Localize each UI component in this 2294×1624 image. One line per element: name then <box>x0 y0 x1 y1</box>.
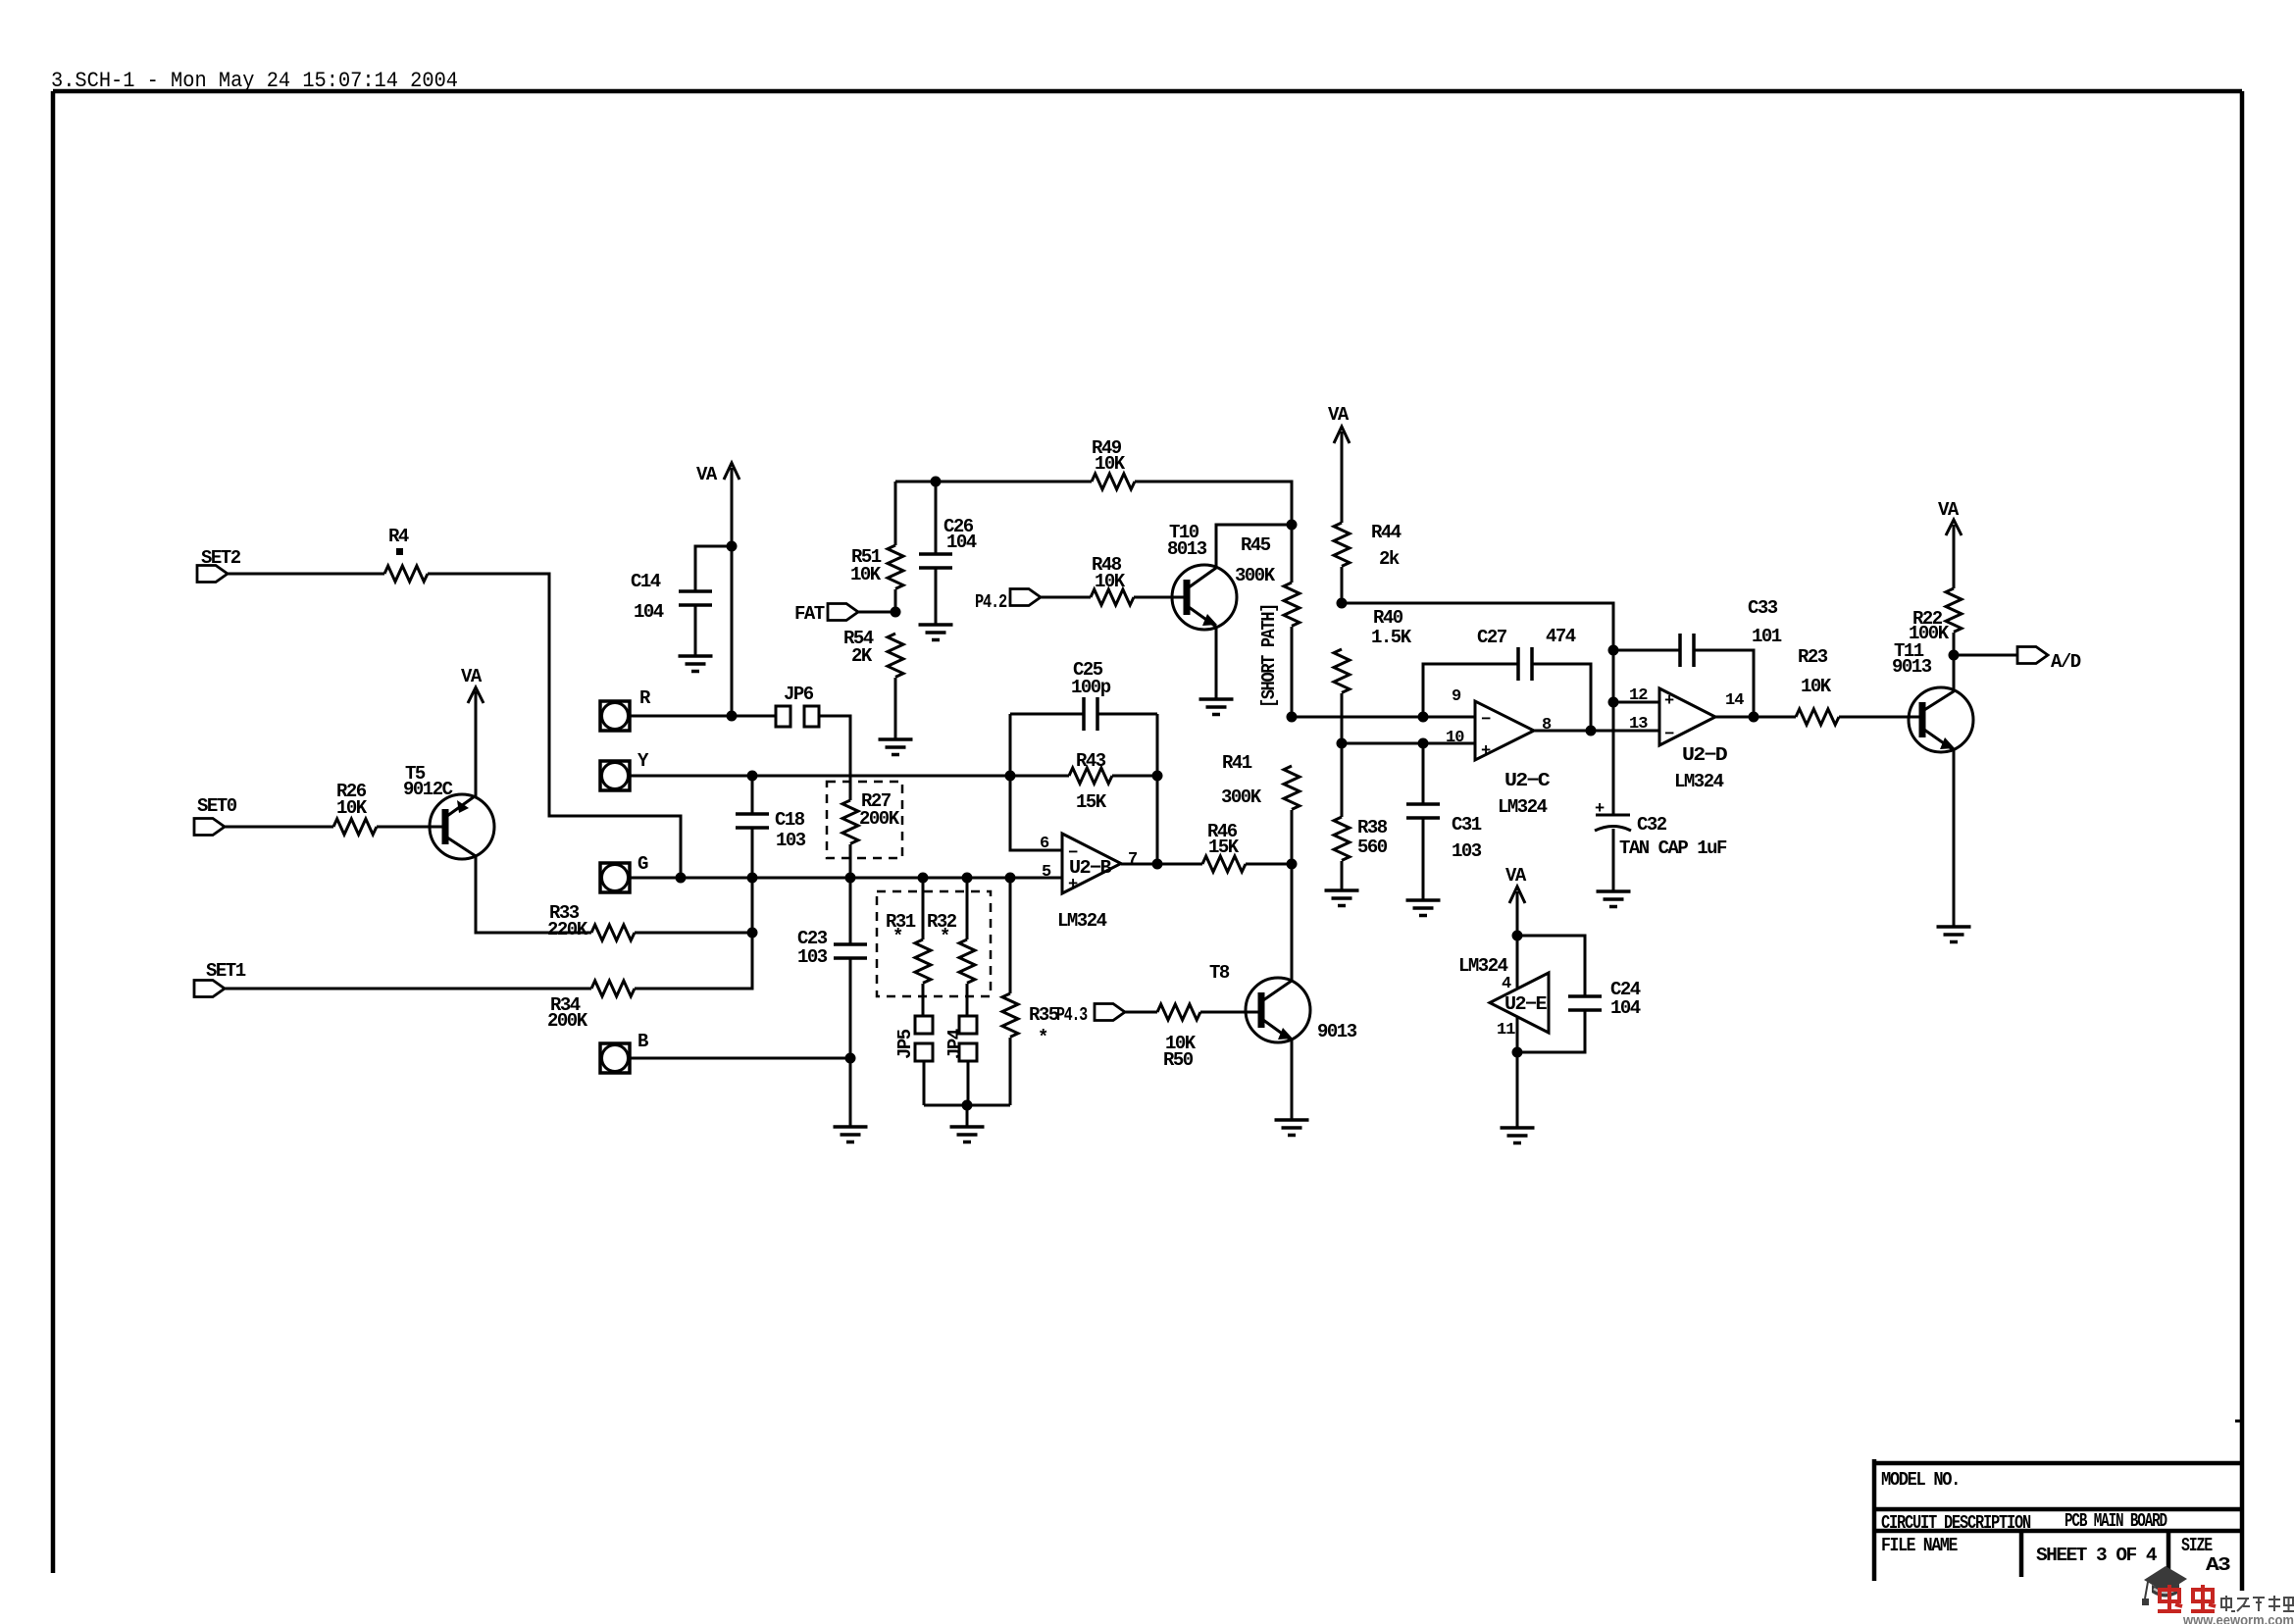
wire FAT to R51 R54 node <box>858 611 895 614</box>
svg-text:A/D: A/D <box>2051 651 2081 673</box>
power VA arrow above R44 <box>1328 404 1350 523</box>
node G R32 junction <box>962 873 973 884</box>
svg-text:SIZE: SIZE <box>2181 1535 2213 1556</box>
svg-text:U2−E: U2−E <box>1504 993 1547 1015</box>
svg-text:104: 104 <box>634 601 664 623</box>
op-amp U2-C LM324 <box>1475 701 1550 818</box>
svg-text:300K: 300K <box>1221 787 1262 808</box>
svg-text:LM324: LM324 <box>1674 771 1724 792</box>
capacitor C14 104 <box>631 546 732 656</box>
svg-text:VA: VA <box>461 666 483 687</box>
svg-text:G: G <box>637 853 648 875</box>
node C32 rail C33 junction <box>1608 645 1619 656</box>
power VA arrow above R22 <box>1938 499 1962 588</box>
wire T5 collector to R33 <box>476 856 591 933</box>
transistor T5 9012C PNP <box>403 763 494 859</box>
svg-text:VA: VA <box>696 464 718 485</box>
resistor R27 200K in dashed box <box>827 782 902 858</box>
svg-text:R45: R45 <box>1241 534 1271 556</box>
node R wire VA junction <box>727 711 738 722</box>
node Y C18 tap <box>747 771 758 782</box>
svg-text:VA: VA <box>1328 404 1350 426</box>
wire pin9 rail to U2-C <box>1292 716 1475 719</box>
wire R27 to G wire <box>849 844 852 878</box>
node output C27 junction <box>1586 726 1597 736</box>
svg-text:100p: 100p <box>1071 677 1111 698</box>
wire rail to T8 collector <box>1291 864 1294 981</box>
wire T10 collector up to rail <box>1216 525 1292 568</box>
watermark text dianzi xiazaizhan gray glyphs <box>2221 1596 2294 1611</box>
jumper JP6 <box>776 684 819 727</box>
svg-text:B: B <box>637 1031 648 1052</box>
svg-text:www.eeworm.com: www.eeworm.com <box>2182 1612 2294 1624</box>
ground under C14 <box>679 656 713 672</box>
wire SET2 to R4 <box>228 573 384 576</box>
svg-text:11: 11 <box>1497 1021 1515 1040</box>
wire U2-B output to R46 <box>1121 863 1202 866</box>
svg-text:104: 104 <box>1610 997 1641 1019</box>
node G C18 junction <box>747 873 758 884</box>
capacitor C26 104 <box>919 482 977 625</box>
node G R31 junction <box>918 873 929 884</box>
svg-text:U2−D: U2−D <box>1682 744 1727 766</box>
border right tick mark <box>2235 1420 2242 1423</box>
border frame left line <box>51 91 56 1573</box>
svg-text:9013: 9013 <box>1317 1021 1357 1042</box>
op-amp U2-B LM324 <box>1057 834 1121 932</box>
ground under C26 <box>919 625 953 640</box>
svg-text:SHEET 3 OF 4: SHEET 3 OF 4 <box>2036 1545 2157 1566</box>
capacitor C31 103 <box>1406 743 1482 900</box>
svg-text:101: 101 <box>1752 626 1782 647</box>
resistor R43 15K <box>1069 750 1157 813</box>
wire JP6 to R27 rail <box>819 716 850 800</box>
node pin9 C27 junction <box>1418 712 1429 723</box>
wire R33 to C18 rail <box>635 932 752 935</box>
svg-text:P4.3: P4.3 <box>1056 1004 1088 1026</box>
ground under R54 <box>879 739 913 755</box>
connector SET1 <box>194 960 246 997</box>
power VA arrow above U2-E <box>1505 865 1527 988</box>
node output C33 junction <box>1749 712 1759 723</box>
wire pin12 to U2-D <box>1613 701 1659 704</box>
wire G port to U2-B pin5 <box>630 877 1062 880</box>
svg-text:10K: 10K <box>850 564 882 585</box>
node R22 AD junction <box>1949 650 1960 661</box>
svg-text:C14: C14 <box>631 571 661 592</box>
svg-text:103: 103 <box>1452 840 1482 862</box>
svg-text:C27: C27 <box>1477 627 1507 648</box>
svg-text:LM324: LM324 <box>1057 910 1107 932</box>
node jumper ground junction <box>962 1100 973 1111</box>
port B <box>600 1031 648 1073</box>
node R40 pin10 junction <box>1337 738 1348 749</box>
node C26 tap <box>931 477 942 487</box>
svg-text:−: − <box>1664 726 1674 744</box>
capacitor C27 474 <box>1423 626 1591 731</box>
resistor R23 10K <box>1796 646 1839 725</box>
svg-text:FAT: FAT <box>794 603 825 625</box>
capacitor C18 103 <box>736 776 806 989</box>
svg-text:PCB MAIN BOARD: PCB MAIN BOARD <box>2065 1510 2167 1532</box>
svg-text:[SHORT PATH]: [SHORT PATH] <box>1258 604 1280 708</box>
svg-text:8013: 8013 <box>1167 538 1207 560</box>
svg-text:+: + <box>1664 692 1674 711</box>
node G R35 junction <box>1005 873 1016 884</box>
svg-text:R23: R23 <box>1798 646 1828 668</box>
wire R4 to corner down to G net <box>428 574 681 878</box>
node T10 collector rail junction <box>1287 520 1298 531</box>
wire node to ground <box>966 1105 969 1127</box>
node G R27 junction <box>845 873 856 884</box>
svg-text:9012C: 9012C <box>403 779 453 800</box>
svg-text:C32: C32 <box>1637 814 1667 836</box>
node R33 junction <box>747 928 758 939</box>
svg-text:VA: VA <box>1938 499 1960 521</box>
wire P4.3 to R50 <box>1125 1011 1157 1014</box>
svg-text:MODEL NO.: MODEL NO. <box>1881 1469 1960 1491</box>
connector P4.2 <box>975 589 1041 614</box>
wire SET0 to R26 <box>225 826 333 829</box>
wire U2-D output to R23 <box>1715 716 1796 719</box>
node R44 R40 junction <box>1337 598 1348 609</box>
resistor R45 300K <box>1235 525 1300 717</box>
svg-text:2k: 2k <box>1379 548 1400 570</box>
svg-text:200K: 200K <box>859 808 900 830</box>
power VA arrow above T5 <box>461 666 484 796</box>
resistor R31 in dashed box <box>877 878 991 996</box>
ground under T10 <box>1199 699 1234 715</box>
capacitor C23 103 <box>797 878 867 1127</box>
connector A/D <box>2017 647 2081 674</box>
node VA C14 tap <box>727 541 738 552</box>
wire Y port to R43 <box>630 775 1069 778</box>
resistor R41 300K <box>1221 752 1300 864</box>
transistor T10 8013 NPN <box>1167 522 1237 630</box>
power VA arrow top left <box>696 463 739 716</box>
svg-text:10K: 10K <box>1095 453 1126 475</box>
svg-text:C18: C18 <box>775 809 805 831</box>
svg-text:CIRCUIT DESCRIPTION: CIRCUIT DESCRIPTION <box>1881 1512 2031 1534</box>
node pin10 C31 junction <box>1418 738 1429 749</box>
ground under T8 <box>1275 1120 1309 1136</box>
wire R48 to T10 base <box>1134 596 1184 599</box>
wire P4.2 to R48 <box>1041 596 1091 599</box>
resistor R32 <box>927 878 975 983</box>
svg-text:4: 4 <box>1502 975 1511 993</box>
resistor R34 200K <box>547 981 635 1032</box>
connector FAT <box>794 603 858 625</box>
connector SET2 <box>197 547 241 583</box>
svg-text:12: 12 <box>1629 686 1648 705</box>
svg-text:R44: R44 <box>1371 522 1402 543</box>
svg-text:P4.2: P4.2 <box>975 591 1007 613</box>
ground under C31 <box>1406 900 1441 916</box>
svg-text:R40: R40 <box>1373 607 1403 629</box>
watermark text chongchong red glyphs <box>2158 1585 2216 1611</box>
resistor R35 <box>1002 878 1059 1105</box>
svg-text:10K: 10K <box>336 797 368 819</box>
svg-text:R4: R4 <box>388 526 409 547</box>
svg-text:Y: Y <box>637 750 649 772</box>
watermark graduation cap icon <box>2142 1566 2187 1605</box>
svg-text:R38: R38 <box>1357 817 1388 838</box>
wire SET1 to R34 <box>225 988 591 990</box>
transistor T11 9013 NPN <box>1892 640 1973 752</box>
svg-text:*: * <box>892 926 902 947</box>
svg-text:T8: T8 <box>1209 962 1230 984</box>
node FAT junction <box>891 607 901 618</box>
svg-text:−: − <box>1481 711 1491 730</box>
wire T10 emitter to ground <box>1215 627 1218 699</box>
wire C32 rail down <box>1612 650 1615 815</box>
resistor R38 560 <box>1334 817 1388 890</box>
node output C25 rail junction <box>1152 859 1163 870</box>
transistor T8 9013 NPN <box>1209 962 1357 1042</box>
port Y <box>600 750 649 790</box>
svg-text:U2−B: U2−B <box>1069 857 1111 879</box>
svg-text:13: 13 <box>1629 715 1648 734</box>
svg-text:10K: 10K <box>1801 676 1832 697</box>
port R <box>600 687 651 731</box>
ground under C23 B net <box>834 1127 868 1142</box>
resistor R33 220K <box>547 902 635 940</box>
node B C23 junction <box>845 1053 856 1064</box>
wire jumper bottom bus <box>924 1104 1010 1107</box>
svg-text:5: 5 <box>1042 863 1051 882</box>
svg-text:*: * <box>1038 1027 1047 1048</box>
svg-text:9: 9 <box>1452 687 1461 706</box>
svg-text:10: 10 <box>1446 729 1464 747</box>
node R43 right junction <box>1152 771 1163 782</box>
wire R50 to T8 base <box>1200 1011 1258 1014</box>
capacitor C32 TAN CAP 1uF <box>1595 800 1727 891</box>
svg-text:JP6: JP6 <box>784 684 814 705</box>
resistor R22 100K <box>1909 588 1962 692</box>
wire top rail R51 to R49 <box>895 481 1092 483</box>
wire R49 to T10 rail <box>1135 482 1292 525</box>
resistor R46 15K <box>1202 821 1292 872</box>
resistor R44 2k <box>1334 522 1402 603</box>
wire B port to C23 rail <box>630 1057 850 1060</box>
wire R23 to T11 base <box>1839 716 1919 719</box>
svg-text:220K: 220K <box>547 919 588 940</box>
op-amp U2-D LM324 <box>1659 688 1727 792</box>
svg-text:R: R <box>639 687 651 709</box>
svg-text:10K: 10K <box>1095 571 1126 592</box>
port G <box>600 853 648 892</box>
ground under T11 <box>1937 927 1971 942</box>
svg-text:560: 560 <box>1357 837 1388 858</box>
wire T8 emitter to ground <box>1291 1040 1294 1120</box>
connector P4.3 <box>1056 1004 1125 1027</box>
wire pin10 to U2-C <box>1342 742 1475 745</box>
resistor R26 10K <box>333 781 377 835</box>
svg-text:VA: VA <box>1505 865 1527 887</box>
capacitor C24 104 <box>1517 936 1641 1052</box>
ground under R38 <box>1325 890 1359 906</box>
capacitor C25 100p <box>1010 659 1157 731</box>
resistor R50 10K <box>1157 1004 1200 1071</box>
wire node to C32 rail <box>1342 603 1613 650</box>
wire pin6 from C25 rail <box>1010 714 1062 850</box>
node Y R43 left junction <box>1005 771 1016 782</box>
svg-text:C31: C31 <box>1452 814 1482 836</box>
svg-text:474: 474 <box>1546 626 1576 647</box>
title block outline <box>1874 1459 2242 1581</box>
wire R port to VA rail <box>630 715 776 718</box>
node G SET2 junction <box>676 873 687 884</box>
svg-text:C33: C33 <box>1748 597 1778 619</box>
svg-text:R41: R41 <box>1222 752 1252 774</box>
op-amp U2-E LM324 power stage <box>1458 955 1549 1033</box>
svg-text:200K: 200K <box>547 1010 588 1032</box>
svg-text:300K: 300K <box>1235 565 1276 586</box>
svg-text:LM324: LM324 <box>1458 955 1508 977</box>
resistor R48 10K <box>1091 554 1134 605</box>
svg-text:JP5: JP5 <box>894 1029 916 1059</box>
node VA C24 top junction <box>1512 931 1523 941</box>
border frame right line <box>2240 91 2245 1591</box>
wire U2-C output to U2-D <box>1534 730 1659 733</box>
wire C25 right rail <box>1156 714 1159 864</box>
svg-text:TAN CAP 1uF: TAN CAP 1uF <box>1619 837 1727 859</box>
border frame top line <box>53 89 2242 94</box>
jumper JP4 <box>944 984 977 1105</box>
svg-text:103: 103 <box>776 830 806 851</box>
svg-text:A3: A3 <box>2206 1554 2230 1576</box>
svg-text:15K: 15K <box>1076 791 1107 813</box>
node pin11 C24 junction <box>1512 1047 1523 1058</box>
svg-text:7: 7 <box>1128 850 1138 869</box>
resistor R49 10K <box>1092 437 1135 489</box>
ground under jumpers <box>950 1127 985 1142</box>
node C32 rail pin12 junction <box>1608 697 1619 708</box>
resistor R51 10K <box>850 482 903 612</box>
svg-text:14: 14 <box>1725 691 1744 710</box>
svg-text:FILE NAME: FILE NAME <box>1881 1535 1958 1556</box>
wire R26 to T5 base <box>377 826 443 829</box>
wire node to AD connector <box>1954 654 2017 657</box>
svg-text:R35: R35 <box>1029 1004 1059 1026</box>
ground under C32 <box>1597 891 1631 907</box>
svg-text:R50: R50 <box>1163 1049 1194 1071</box>
wire T11 emitter to ground <box>1953 750 1956 927</box>
resistor R4 <box>384 526 428 582</box>
svg-text:104: 104 <box>946 532 977 553</box>
node rail R46 junction <box>1287 859 1298 870</box>
node rail pin9 junction <box>1287 712 1298 723</box>
svg-text:9013: 9013 <box>1892 656 1932 678</box>
svg-text:103: 103 <box>797 946 828 968</box>
resistor R54 2K <box>843 628 903 739</box>
jumper JP5 <box>894 984 933 1105</box>
capacitor C33 101 <box>1613 597 1782 717</box>
resistor R40 1.5K <box>1334 607 1412 817</box>
svg-text:+: + <box>1481 742 1491 761</box>
svg-text:SET0: SET0 <box>197 795 237 817</box>
svg-text:*: * <box>940 926 949 947</box>
svg-text:LM324: LM324 <box>1498 796 1548 818</box>
wire U2-E pin11 to ground <box>1516 1017 1519 1128</box>
svg-text:SET1: SET1 <box>206 960 246 982</box>
svg-text:1.5K: 1.5K <box>1371 627 1412 648</box>
svg-text:U2−C: U2−C <box>1504 770 1550 791</box>
wire R34 to C18 rail corner <box>635 933 752 989</box>
ground under U2-E <box>1501 1128 1535 1143</box>
connector SET0 <box>194 795 237 836</box>
svg-text:2K: 2K <box>851 645 873 667</box>
